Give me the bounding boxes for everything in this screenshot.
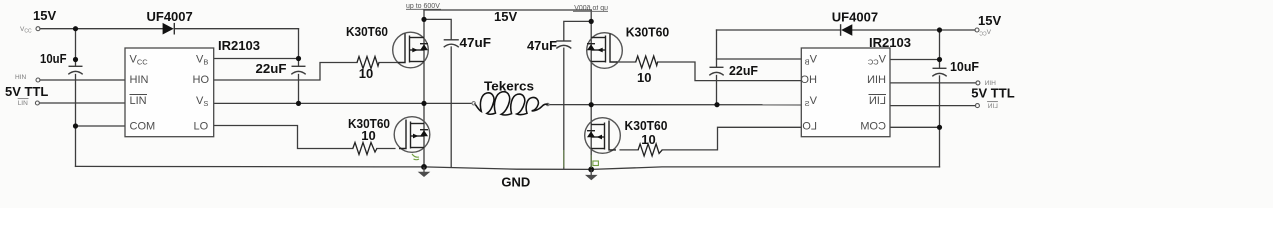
- svg-text:10uF: 10uF: [40, 51, 67, 66]
- svg-text:10: 10: [359, 66, 373, 81]
- svg-text:Tekercs: Tekercs: [484, 79, 534, 94]
- svg-text:HO: HO: [193, 74, 210, 86]
- wire M4 drain-source vertical: [590, 105, 592, 170]
- wire 15V left rail: [40, 28, 163, 30]
- IC U2 IR2103 right box: [801, 48, 890, 137]
- svg-text:K30T60: K30T60: [626, 25, 670, 40]
- svg-text:HIN: HIN: [984, 80, 996, 87]
- transistor Q3 K30T60 top-right: [587, 33, 623, 69]
- svg-text:10: 10: [361, 128, 375, 143]
- svg-text:15V: 15V: [494, 9, 517, 24]
- transistor Q1 K30T60 top-left: [393, 32, 429, 68]
- wire VS row right of coil: [548, 104, 801, 106]
- wire M3 drain-source vertical: [590, 10, 592, 105]
- wire LIN input: [40, 102, 126, 104]
- transistor Q2 K30T60 bottom-left: [394, 117, 430, 153]
- svg-text:LIN: LIN: [987, 103, 997, 110]
- annotation green 47uF lead right: [563, 150, 565, 168]
- wire HV bus top: [424, 9, 591, 11]
- svg-text:LIN: LIN: [869, 95, 886, 107]
- wire bootstrap vertical right below 22uF: [716, 76, 718, 105]
- svg-text:K30T60: K30T60: [346, 24, 388, 39]
- wire LIN right input: [890, 105, 976, 107]
- wire gate to M2: [377, 148, 395, 150]
- wire 15V rail after diode: [175, 28, 299, 30]
- wire gate M3 to resistor: [617, 61, 636, 63]
- capacitor 47uF right: [556, 41, 571, 48]
- ground symbol left: [418, 167, 431, 177]
- diode UF4007 left: [163, 23, 175, 35]
- terminal HIN left: [36, 78, 40, 82]
- svg-text:HIN: HIN: [15, 74, 27, 81]
- wire GND rail: [76, 166, 940, 169]
- svg-text:UF4007: UF4007: [147, 9, 193, 24]
- terminal Vcc right: [975, 28, 979, 32]
- terminal HIN right: [976, 81, 980, 85]
- capacitor 22uF left: [291, 66, 305, 74]
- svg-text:15V: 15V: [978, 13, 1001, 28]
- capacitor 10uF right: [932, 68, 946, 76]
- IC U2 pin label LIN mirrored: [869, 95, 887, 108]
- inductor Tekercs coil: [475, 92, 548, 115]
- svg-text:47uF: 47uF: [460, 35, 492, 50]
- svg-text:COM: COM: [860, 121, 886, 133]
- svg-text:HIN: HIN: [867, 74, 886, 86]
- svg-text:GND: GND: [501, 175, 530, 190]
- IC U1 pin label LIN: [130, 95, 148, 108]
- svg-text:10uF: 10uF: [950, 59, 979, 74]
- svg-text:UF4007: UF4007: [832, 10, 878, 25]
- diode UF4007 right: [841, 24, 853, 36]
- wire VB right: [717, 58, 802, 60]
- label up to 600V mirrored: [573, 5, 608, 12]
- svg-text:LO: LO: [194, 121, 209, 133]
- wire M2 drain-source vertical: [423, 103, 425, 166]
- wire VB from IC: [214, 58, 299, 60]
- wire left Vcc bus vertical: [75, 29, 77, 66]
- resistor R1 gate 10 top-left: [357, 57, 379, 69]
- resistor R3 gate 10 top-right: [636, 56, 658, 68]
- svg-text:5V TTL: 5V TTL: [5, 84, 48, 99]
- svg-text:COM: COM: [130, 121, 156, 133]
- annotation green lead right: [590, 155, 592, 168]
- capacitor 47uF left: [444, 40, 459, 47]
- wire bootstrap vertical right top: [716, 30, 718, 67]
- wire VS row left: [214, 102, 472, 104]
- wire 15V right rail: [717, 29, 841, 31]
- wire right Vcc bus vertical: [939, 30, 941, 68]
- terminal Vcc left: [36, 27, 40, 31]
- wire 15V right rail after diode: [852, 29, 975, 31]
- terminal LIN left: [35, 101, 39, 105]
- label LIN terminal left: [18, 99, 29, 107]
- wire right bus below cap: [939, 76, 941, 167]
- wire HIN input: [40, 79, 125, 81]
- wire COM right: [890, 126, 940, 128]
- svg-text:IR2103: IR2103: [218, 38, 260, 53]
- wire gate M4 to resistor: [620, 149, 638, 151]
- wire left bus below cap: [75, 75, 77, 167]
- wire 47uF left lower lead: [450, 47, 452, 167]
- svg-text:LIN: LIN: [130, 95, 147, 107]
- svg-text:10: 10: [637, 70, 651, 85]
- label up to 600V: [406, 3, 441, 10]
- wire HIN right input: [890, 82, 976, 84]
- svg-text:K30T60: K30T60: [625, 118, 668, 133]
- label LIN terminal right mirrored: [987, 102, 998, 110]
- wire HO right: [658, 62, 802, 81]
- svg-text:LIN: LIN: [18, 100, 28, 107]
- annotation green mark right: [593, 161, 599, 166]
- wire bootstrap vertical top: [298, 29, 300, 66]
- svg-text:22uF: 22uF: [729, 63, 758, 78]
- svg-text:10: 10: [641, 132, 655, 147]
- wire LO right: [662, 127, 801, 150]
- capacitor 22uF right: [709, 67, 723, 75]
- capacitor 10uF left: [68, 66, 82, 74]
- svg-text:5V TTL: 5V TTL: [971, 86, 1014, 101]
- ground symbol right: [585, 169, 598, 180]
- svg-text:47uF: 47uF: [527, 38, 557, 53]
- coil start circle: [472, 102, 475, 105]
- terminal LIN right: [975, 104, 979, 108]
- resistor R4 gate 10 bottom-right: [638, 144, 662, 156]
- resistor R2 gate 10 bottom-left: [353, 143, 377, 155]
- svg-text:HO: HO: [800, 74, 817, 86]
- wire gate to M1: [379, 62, 398, 64]
- svg-text:15V: 15V: [33, 8, 56, 23]
- svg-text:22uF: 22uF: [256, 61, 287, 76]
- wire VCC to right IC: [890, 59, 940, 61]
- svg-text:IR2103: IR2103: [869, 35, 911, 50]
- wire LO from IC: [214, 126, 353, 149]
- annotation green mark left: [412, 154, 419, 160]
- transistor Q4 K30T60 bottom-right: [585, 118, 621, 154]
- wire 47uF right lower lead: [563, 48, 565, 168]
- svg-text:LO: LO: [802, 121, 817, 133]
- IC U1 IR2103 left box: [125, 48, 214, 137]
- wire bootstrap vertical below 22uF: [298, 75, 300, 104]
- wire COM to IC: [76, 125, 126, 127]
- wire HO from IC: [214, 63, 357, 81]
- svg-text:HIN: HIN: [130, 74, 149, 86]
- wire branch to 47uF left: [424, 19, 451, 39]
- wire branch to 47uF right: [564, 21, 591, 40]
- wire M1 drain-source vertical: [423, 10, 425, 103]
